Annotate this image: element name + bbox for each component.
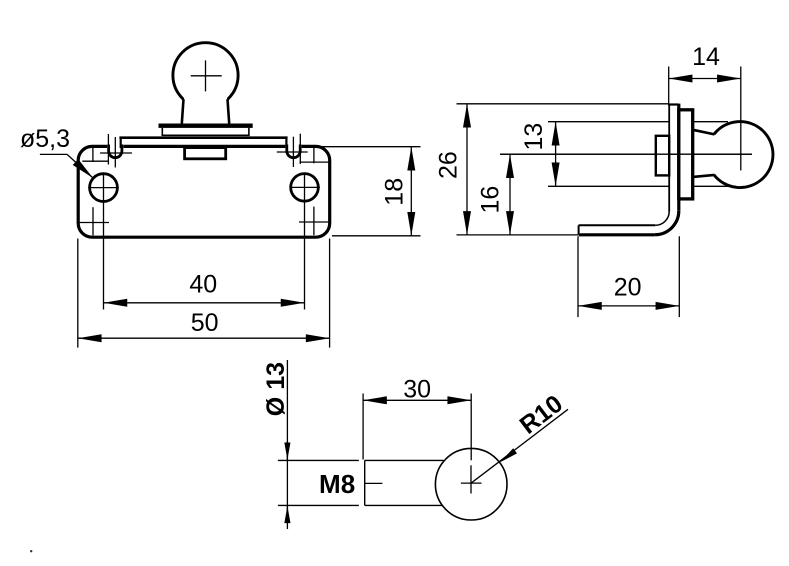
dimension 14 <box>669 43 741 170</box>
collar washer (side view) <box>679 110 693 199</box>
sheet vertical leg (side view) <box>668 104 679 212</box>
extension line top of bracket <box>457 103 670 105</box>
svg-text:ø5,3: ø5,3 <box>20 125 70 153</box>
dimension 20 <box>578 236 679 317</box>
flange strip (front view) <box>119 137 287 149</box>
centerline of ball (side view) <box>500 153 752 155</box>
ball center cross (front view) <box>191 60 222 91</box>
ball circle (bottom view) <box>435 448 507 520</box>
right hole <box>291 174 319 202</box>
centerline overlay (side view) <box>500 153 752 155</box>
ball neck (front view) <box>182 98 229 125</box>
svg-text:Ø 13: Ø 13 <box>262 362 290 416</box>
bend corner <box>655 211 679 235</box>
svg-text:M8: M8 <box>319 469 355 499</box>
dimension 30 <box>363 376 471 461</box>
boss tab (side view) <box>656 136 669 176</box>
sheet bottom leg (side view) <box>579 225 656 235</box>
svg-text:26: 26 <box>434 151 462 179</box>
plate outline (front view) <box>78 146 330 237</box>
ball stud ball (front view) <box>173 43 238 108</box>
svg-text:30: 30 <box>403 376 431 404</box>
dimension 13 <box>520 122 556 187</box>
dimension diameter 13 <box>262 360 290 529</box>
dimension 50 <box>78 239 330 348</box>
circle center cross <box>461 465 482 493</box>
svg-text:50: 50 <box>191 309 219 337</box>
13 extension lines right segments <box>694 122 736 187</box>
svg-text:16: 16 <box>476 186 504 214</box>
svg-text:20: 20 <box>614 274 642 302</box>
corner radius center marks <box>79 146 331 235</box>
radius R10 leader <box>471 390 568 484</box>
dimension 16 <box>476 154 510 235</box>
svg-text:40: 40 <box>189 271 217 299</box>
left notch <box>107 143 123 157</box>
dimension 26 <box>434 104 467 235</box>
label M8 <box>319 469 355 499</box>
dimension 40 <box>104 271 305 303</box>
extension line bottom of bracket <box>457 234 579 236</box>
svg-text:13: 13 <box>520 123 548 151</box>
stray dot <box>30 550 32 552</box>
label diameter 5,3 <box>20 125 93 178</box>
collar washer (front view) <box>159 124 253 136</box>
right hole centerlines <box>290 173 320 310</box>
center tab (front view) <box>185 148 226 159</box>
left hole centerlines <box>88 173 119 310</box>
dimension 18 <box>321 147 421 236</box>
right notch <box>285 143 301 158</box>
ball (side view) <box>714 122 773 188</box>
13 extension lines <box>548 122 670 187</box>
shaft centerline stub <box>365 482 383 484</box>
notch centerlines <box>100 134 308 168</box>
svg-text:14: 14 <box>692 43 720 71</box>
neck (side view) <box>693 130 715 177</box>
shaft outline <box>278 460 444 505</box>
svg-text:18: 18 <box>381 178 409 206</box>
left hole <box>90 174 118 202</box>
